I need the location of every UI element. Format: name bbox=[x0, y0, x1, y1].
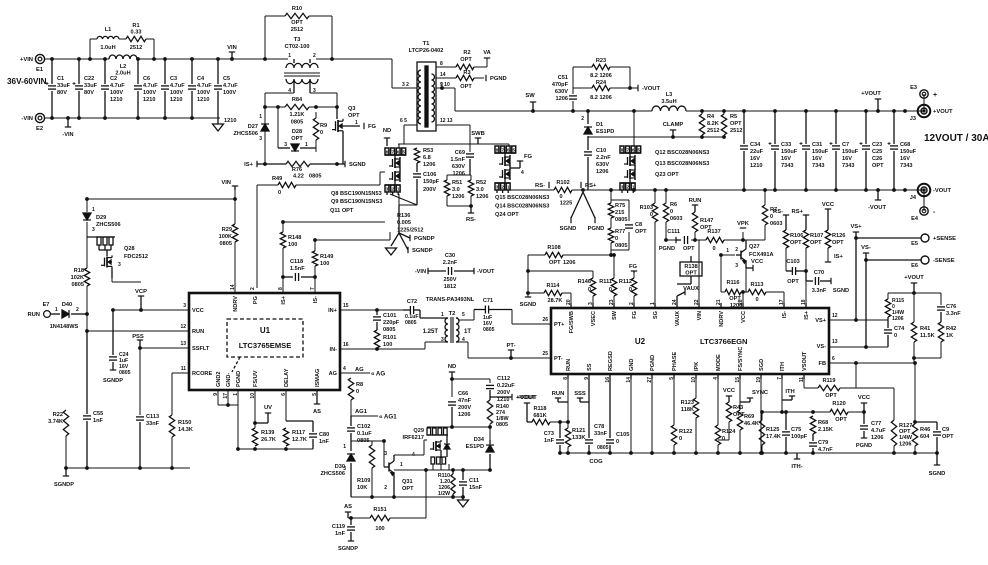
svg-text:R7: R7 bbox=[770, 207, 777, 213]
wire R115 top row bbox=[888, 293, 941, 322]
wire VS+ row bbox=[829, 319, 888, 321]
net PSS tick bbox=[132, 334, 144, 348]
resistor R68 bbox=[810, 416, 833, 434]
net ITH- tick bbox=[791, 453, 802, 470]
svg-text:3: 3 bbox=[384, 451, 387, 457]
wire PT+ row bbox=[512, 323, 551, 325]
svg-text:12: 12 bbox=[832, 313, 838, 319]
svg-text:8.2 1206: 8.2 1206 bbox=[590, 95, 612, 101]
svg-text:1.5nF: 1.5nF bbox=[290, 266, 305, 272]
svg-text:OPT: OPT bbox=[872, 163, 884, 169]
wire sense joins bbox=[786, 248, 828, 271]
svg-text:AG: AG bbox=[329, 371, 337, 377]
capacitor C113 bbox=[136, 414, 160, 468]
svg-text:R24: R24 bbox=[596, 80, 607, 86]
resistor R123 bbox=[681, 398, 699, 418]
svg-text:4.7nF: 4.7nF bbox=[818, 447, 833, 453]
svg-text:1/2W: 1/2W bbox=[438, 491, 450, 497]
svg-text:« AG1: « AG1 bbox=[379, 414, 397, 421]
capacitor C7 bbox=[830, 111, 859, 190]
svg-text:26.7K: 26.7K bbox=[261, 437, 276, 443]
wire SGNDP bus left bbox=[66, 467, 190, 469]
resistor R125 bbox=[759, 420, 781, 445]
labels Q8 Q9 Q11 bbox=[330, 191, 382, 214]
svg-text:R137: R137 bbox=[707, 229, 720, 235]
svg-text:R53: R53 bbox=[423, 148, 433, 154]
svg-text:R111: R111 bbox=[599, 279, 612, 285]
wire RUN pin8 col bbox=[567, 379, 569, 453]
svg-text:3: 3 bbox=[735, 263, 738, 269]
svg-text:100V: 100V bbox=[170, 90, 183, 96]
svg-text:R126: R126 bbox=[832, 233, 845, 239]
svg-text:13: 13 bbox=[180, 341, 186, 347]
svg-text:R49: R49 bbox=[272, 176, 282, 182]
svg-text:U2: U2 bbox=[635, 337, 646, 346]
resistor R10 bbox=[285, 6, 309, 33]
wire R22 col bbox=[65, 436, 67, 468]
svg-text:« AG: « AG bbox=[371, 371, 385, 378]
svg-text:1.25T: 1.25T bbox=[423, 329, 439, 335]
diode D30 bbox=[320, 441, 355, 497]
svg-text:4.22: 4.22 bbox=[293, 174, 304, 180]
svg-text:1206: 1206 bbox=[892, 316, 904, 322]
svg-text:R113: R113 bbox=[750, 282, 763, 288]
svg-text:150uF: 150uF bbox=[842, 149, 859, 155]
svg-text:100pF: 100pF bbox=[791, 434, 808, 440]
svg-text:SGNDP: SGNDP bbox=[338, 546, 358, 552]
svg-text:IPK: IPK bbox=[694, 362, 700, 371]
svg-text:Q14 BSC028N06NS3: Q14 BSC028N06NS3 bbox=[495, 204, 549, 210]
wire -VIN bottom rail bbox=[45, 117, 220, 119]
svg-text:E7: E7 bbox=[43, 302, 50, 308]
ground primary sense bbox=[386, 233, 400, 255]
svg-text:0: 0 bbox=[609, 287, 612, 293]
capacitor C23C25C26 bbox=[860, 111, 885, 190]
svg-text:PGND: PGND bbox=[588, 226, 605, 232]
svg-text:E5: E5 bbox=[911, 241, 918, 247]
wire RCORE row bbox=[172, 373, 189, 415]
diode D29 bbox=[83, 207, 121, 233]
svg-text:Q9 BSC190N15NS3: Q9 BSC190N15NS3 bbox=[331, 199, 382, 205]
wire ITH col bbox=[781, 379, 783, 412]
resistor R150 bbox=[169, 415, 193, 437]
svg-text:Q8 BSC190N15N53: Q8 BSC190N15N53 bbox=[331, 191, 382, 197]
svg-text:7: 7 bbox=[626, 148, 629, 153]
svg-text:IS+: IS+ bbox=[244, 162, 253, 168]
svg-text:681K: 681K bbox=[533, 413, 546, 419]
svg-text:R119: R119 bbox=[822, 378, 835, 384]
svg-text:7343: 7343 bbox=[812, 163, 824, 169]
junction dots R115 row bbox=[912, 291, 916, 295]
labels Q12 Q13 Q23 bbox=[655, 150, 709, 178]
net SGND tick (C9) bbox=[929, 453, 946, 477]
svg-text:150uF: 150uF bbox=[812, 149, 829, 155]
svg-text:SGND: SGND bbox=[349, 162, 366, 168]
net VCP tick bbox=[135, 289, 147, 310]
svg-text:C55: C55 bbox=[93, 411, 103, 417]
svg-text:J4: J4 bbox=[910, 195, 917, 201]
ground at C5 bbox=[213, 118, 237, 131]
svg-text:2.2nF: 2.2nF bbox=[596, 155, 611, 161]
svg-text:Q15 BSC028N06NS3: Q15 BSC028N06NS3 bbox=[495, 195, 549, 201]
U1 top pin labels bbox=[230, 284, 319, 312]
resistor R108 bbox=[545, 245, 575, 266]
resistor R52 bbox=[468, 180, 488, 200]
svg-text:630V: 630V bbox=[596, 162, 609, 168]
svg-text:ITH: ITH bbox=[780, 362, 786, 371]
svg-text:1nF: 1nF bbox=[335, 531, 346, 537]
svg-text:SGNDP: SGNDP bbox=[412, 248, 433, 254]
svg-text:1206: 1206 bbox=[596, 169, 608, 175]
net ND tick (C66) bbox=[448, 364, 456, 381]
svg-text:IS+: IS+ bbox=[281, 295, 287, 304]
junction dots T3 rail bbox=[263, 57, 334, 61]
net +VOUT tick (R115) bbox=[904, 275, 924, 293]
svg-text:2: 2 bbox=[626, 185, 629, 190]
junction dots VPK row bbox=[664, 238, 808, 294]
svg-text:6: 6 bbox=[832, 356, 835, 362]
svg-text:TRANS-PA3493NL: TRANS-PA3493NL bbox=[426, 297, 475, 303]
svg-text:100K: 100K bbox=[219, 234, 232, 240]
svg-text:1210: 1210 bbox=[170, 97, 182, 103]
svg-text:1210: 1210 bbox=[110, 97, 122, 103]
R23 R24 values bbox=[590, 73, 612, 101]
svg-text:0: 0 bbox=[615, 236, 618, 242]
svg-text:604: 604 bbox=[920, 434, 930, 440]
labels Q15 Q14 Q24 bbox=[495, 195, 549, 218]
svg-text:Q28: Q28 bbox=[124, 246, 135, 252]
wire R109 bot bbox=[371, 468, 373, 497]
svg-text:C119: C119 bbox=[332, 524, 345, 530]
U2 top pin stubs bbox=[571, 303, 806, 308]
svg-text:C71: C71 bbox=[483, 298, 493, 304]
svg-text:RUN: RUN bbox=[192, 329, 204, 335]
transformer T3 bbox=[284, 53, 320, 94]
svg-text:1: 1 bbox=[397, 187, 400, 192]
capacitor C5 bbox=[214, 59, 238, 118]
svg-text:OPT: OPT bbox=[291, 20, 303, 26]
wire R41 R42 bottoms bbox=[914, 342, 941, 364]
resistor R114 bbox=[544, 283, 562, 304]
wire R51 R52 loop bbox=[447, 175, 471, 206]
resistor R122 bbox=[671, 425, 692, 445]
svg-text:D40: D40 bbox=[62, 302, 72, 308]
capacitor C66 bbox=[448, 391, 472, 427]
svg-text:C23: C23 bbox=[872, 142, 882, 148]
svg-text:IRF6217: IRF6217 bbox=[403, 435, 424, 441]
svg-text:R23: R23 bbox=[596, 58, 606, 64]
svg-text:DELAY: DELAY bbox=[284, 368, 290, 387]
svg-text:IN-: IN- bbox=[330, 347, 338, 353]
svg-text:6: 6 bbox=[632, 148, 635, 153]
svg-text:0: 0 bbox=[650, 212, 653, 218]
svg-text:1210: 1210 bbox=[197, 97, 209, 103]
svg-text:IS+: IS+ bbox=[834, 254, 843, 260]
svg-text:1: 1 bbox=[726, 248, 729, 254]
net VCC tick (C77) bbox=[858, 395, 871, 414]
svg-text:0: 0 bbox=[278, 190, 281, 196]
svg-text:U1: U1 bbox=[260, 326, 271, 335]
net SGND fork bbox=[560, 192, 583, 232]
svg-text:C79: C79 bbox=[818, 440, 828, 446]
resistor R148 bbox=[280, 232, 301, 248]
svg-text:LTCP26-0402: LTCP26-0402 bbox=[409, 48, 444, 54]
capacitor C55 bbox=[83, 331, 104, 468]
svg-text:C76: C76 bbox=[946, 304, 956, 310]
svg-text:OPT: OPT bbox=[635, 229, 647, 235]
svg-text:IN+: IN+ bbox=[328, 308, 338, 314]
svg-text:1206: 1206 bbox=[871, 435, 883, 441]
wire R119 loop bbox=[804, 363, 856, 388]
svg-text:2: 2 bbox=[384, 485, 387, 491]
wire SWB row bbox=[452, 144, 497, 152]
net AG1 label bbox=[355, 409, 397, 421]
capacitor C103 bbox=[786, 259, 806, 285]
junction dots SW rail bbox=[531, 109, 726, 139]
svg-text:OPT: OPT bbox=[825, 393, 837, 399]
resistor R126 bbox=[825, 230, 845, 248]
capacitor C77 bbox=[856, 412, 886, 449]
svg-text:R116: R116 bbox=[726, 280, 739, 286]
net RUN hook (U2) bbox=[552, 391, 568, 402]
svg-text:VCP: VCP bbox=[135, 289, 147, 295]
svg-text:R5: R5 bbox=[730, 114, 737, 120]
wire IN- row bbox=[340, 342, 446, 349]
inductor L2 bbox=[109, 55, 137, 77]
svg-text:1/4W: 1/4W bbox=[899, 435, 913, 441]
svg-text:REGSD: REGSD bbox=[608, 351, 614, 371]
resistor R7 bbox=[762, 205, 782, 227]
label TRANS-PA3493NL bbox=[426, 297, 475, 303]
svg-text:2: 2 bbox=[581, 116, 584, 122]
svg-text:1206: 1206 bbox=[453, 171, 465, 177]
resistor R4 bbox=[699, 114, 719, 135]
svg-text:1: 1 bbox=[55, 307, 58, 313]
resistor R29 bbox=[219, 224, 238, 247]
svg-text:C31: C31 bbox=[812, 142, 822, 148]
transformer T2 bbox=[423, 311, 472, 343]
capacitor C112 bbox=[486, 376, 515, 403]
svg-text:C25: C25 bbox=[872, 149, 882, 155]
svg-text:FDC2512: FDC2512 bbox=[124, 254, 148, 260]
svg-text:OPT: OPT bbox=[787, 279, 799, 285]
svg-text:1210: 1210 bbox=[750, 163, 762, 169]
wire R46 col bbox=[914, 364, 916, 453]
wire R114 row bbox=[528, 293, 571, 303]
svg-text:3.5uH: 3.5uH bbox=[661, 99, 676, 105]
net AS tick (pin5) bbox=[313, 390, 321, 415]
svg-text:8: 8 bbox=[440, 61, 443, 67]
resistor R116 bbox=[725, 280, 742, 309]
svg-text:VS-: VS- bbox=[861, 245, 871, 251]
resistor R107 bbox=[803, 230, 823, 248]
svg-text:FG: FG bbox=[632, 311, 638, 319]
svg-text:C112: C112 bbox=[497, 376, 510, 382]
svg-text:R22: R22 bbox=[53, 412, 63, 418]
svg-text:4.7uF: 4.7uF bbox=[110, 83, 125, 89]
svg-text:1206: 1206 bbox=[899, 442, 911, 448]
svg-text:R75: R75 bbox=[615, 203, 625, 209]
svg-text:MODE: MODE bbox=[716, 354, 722, 371]
wire ITH comp row bbox=[762, 411, 864, 413]
svg-text:100V: 100V bbox=[197, 90, 210, 96]
svg-text:6: 6 bbox=[507, 148, 510, 153]
svg-text:SSFLT: SSFLT bbox=[192, 346, 210, 352]
wire pin19 col bbox=[760, 379, 762, 453]
svg-text:0: 0 bbox=[320, 130, 323, 136]
junction dots output rails bbox=[742, 109, 907, 192]
wire IN+ row bbox=[340, 309, 403, 311]
capacitor C30 bbox=[428, 253, 474, 290]
svg-text:1.21K: 1.21K bbox=[290, 112, 305, 118]
wire T2 pin4 PT- row bbox=[458, 342, 551, 358]
svg-text:E2: E2 bbox=[36, 126, 43, 132]
net UV hook bbox=[253, 405, 272, 425]
svg-text:14: 14 bbox=[440, 72, 446, 78]
U2 right pin names bbox=[815, 318, 826, 367]
transistor Q8 Q9 Q11 cluster bbox=[385, 148, 406, 195]
svg-text:Q23 OPT: Q23 OPT bbox=[655, 172, 679, 178]
svg-text:Q24 OPT: Q24 OPT bbox=[495, 212, 519, 218]
wire AG row bbox=[340, 372, 370, 374]
svg-text:-VOUT: -VOUT bbox=[477, 269, 495, 275]
net SGNDP fork bbox=[399, 233, 433, 254]
wire R127 col bbox=[893, 388, 895, 453]
junction dots driver bbox=[370, 425, 492, 499]
resistor R1 bbox=[126, 23, 146, 51]
capacitor C24 bbox=[103, 310, 131, 384]
wire R140 col bbox=[489, 424, 491, 440]
wire FB row bbox=[829, 362, 915, 364]
svg-text:3: 3 bbox=[386, 187, 389, 192]
svg-text:R125: R125 bbox=[766, 427, 779, 433]
svg-text:PGNDP: PGNDP bbox=[414, 236, 435, 242]
net ITH hook bbox=[782, 389, 795, 400]
svg-text:1: 1 bbox=[259, 114, 262, 120]
svg-text:0: 0 bbox=[629, 287, 632, 293]
wire VCC row U1 bbox=[113, 309, 189, 311]
svg-text:2: 2 bbox=[250, 287, 256, 290]
svg-text:-VOUT: -VOUT bbox=[868, 205, 886, 211]
svg-text:RUN: RUN bbox=[27, 312, 40, 318]
svg-text:SS: SS bbox=[587, 363, 593, 371]
svg-text:0603: 0603 bbox=[670, 216, 682, 222]
svg-text:D27: D27 bbox=[248, 124, 258, 130]
svg-text:0: 0 bbox=[559, 194, 562, 200]
net VAUX hook bbox=[677, 286, 699, 303]
svg-text:28.7K: 28.7K bbox=[548, 298, 563, 304]
svg-text:22uF: 22uF bbox=[750, 149, 764, 155]
svg-text:0.33: 0.33 bbox=[131, 30, 142, 36]
svg-text:1206: 1206 bbox=[423, 162, 435, 168]
svg-text:SYNC: SYNC bbox=[752, 390, 769, 396]
svg-text:C30: C30 bbox=[445, 253, 455, 259]
wire driver gnd row bbox=[351, 496, 463, 498]
wire RUN row U1 bbox=[87, 330, 189, 332]
IC U1 inner dashed bbox=[227, 319, 303, 372]
svg-text:33nF: 33nF bbox=[146, 421, 160, 427]
svg-text:1225/2512: 1225/2512 bbox=[397, 228, 423, 234]
svg-text:R2: R2 bbox=[463, 50, 470, 56]
wire C71 corner bbox=[511, 310, 513, 325]
svg-text:1.0uH: 1.0uH bbox=[100, 45, 115, 51]
svg-text:VIN: VIN bbox=[221, 180, 231, 186]
svg-text:200V: 200V bbox=[458, 405, 471, 411]
svg-text:T1: T1 bbox=[423, 41, 431, 47]
svg-text:-SENSE: -SENSE bbox=[933, 258, 955, 264]
resistor R120 bbox=[830, 401, 848, 423]
terminal E5 bbox=[856, 234, 956, 247]
svg-text:100: 100 bbox=[288, 242, 297, 248]
wire IS- column bbox=[314, 240, 316, 293]
svg-text:R118: R118 bbox=[533, 406, 546, 412]
svg-text:R121: R121 bbox=[572, 428, 585, 434]
wire pin10 col bbox=[255, 390, 286, 428]
capacitor C101 bbox=[373, 310, 400, 333]
svg-text:R151: R151 bbox=[373, 507, 386, 513]
svg-text:OPT: OPT bbox=[460, 57, 472, 63]
junction dots C101 bbox=[375, 308, 379, 351]
svg-text:46.4K: 46.4K bbox=[744, 421, 759, 427]
svg-text:5: 5 bbox=[462, 312, 465, 318]
capacitor C111 bbox=[667, 229, 695, 252]
svg-text:T2: T2 bbox=[449, 311, 456, 317]
svg-text:RUN: RUN bbox=[566, 359, 572, 371]
wire IS+ column bbox=[282, 222, 284, 293]
svg-text:R1: R1 bbox=[132, 23, 139, 29]
svg-text:215: 215 bbox=[615, 210, 624, 216]
svg-text:3: 3 bbox=[284, 142, 287, 148]
svg-text:Q3: Q3 bbox=[348, 106, 355, 112]
capacitor C9 bbox=[913, 420, 954, 453]
svg-text:1T: 1T bbox=[464, 329, 471, 335]
svg-text:C74: C74 bbox=[894, 326, 905, 332]
terminal E3 bbox=[910, 85, 937, 99]
svg-text:C68: C68 bbox=[900, 142, 910, 148]
svg-text:0805: 0805 bbox=[291, 120, 303, 126]
inductor L3 bbox=[652, 92, 686, 111]
svg-text:200V: 200V bbox=[497, 390, 510, 396]
svg-text:4.7uF: 4.7uF bbox=[223, 83, 238, 89]
svg-text:+VOUT: +VOUT bbox=[861, 91, 881, 97]
wire gate driver ND row bbox=[452, 378, 490, 380]
svg-text:FS/SYNC: FS/SYNC bbox=[738, 347, 744, 371]
svg-text:GND-: GND- bbox=[226, 373, 232, 387]
net +VOUT tick (C112) bbox=[490, 394, 536, 401]
resistor R53 bbox=[414, 148, 435, 168]
resistor R147 bbox=[692, 212, 713, 232]
wire VIN pin column bbox=[698, 240, 700, 303]
svg-text:0805: 0805 bbox=[309, 174, 321, 180]
svg-text:R122: R122 bbox=[679, 429, 692, 435]
svg-text:C34: C34 bbox=[750, 142, 761, 148]
diode D32 bodydiode bbox=[444, 435, 450, 457]
svg-text:C3: C3 bbox=[170, 76, 177, 82]
svg-text:SGND: SGND bbox=[560, 226, 577, 232]
svg-text:FCX491A: FCX491A bbox=[749, 252, 774, 258]
wire +VIN top rail bbox=[45, 59, 417, 88]
svg-text:17.4K: 17.4K bbox=[766, 434, 781, 440]
svg-text:C69: C69 bbox=[455, 150, 465, 156]
wire R146 col bbox=[592, 271, 594, 303]
svg-text:FG: FG bbox=[629, 264, 638, 270]
label T1 bbox=[409, 41, 444, 54]
svg-text:1: 1 bbox=[400, 462, 403, 468]
svg-text:-VIN: -VIN bbox=[62, 132, 73, 138]
svg-text:ND: ND bbox=[448, 364, 456, 370]
svg-text:ISMAG: ISMAG bbox=[315, 369, 321, 387]
svg-text:-VIN: -VIN bbox=[21, 116, 33, 122]
